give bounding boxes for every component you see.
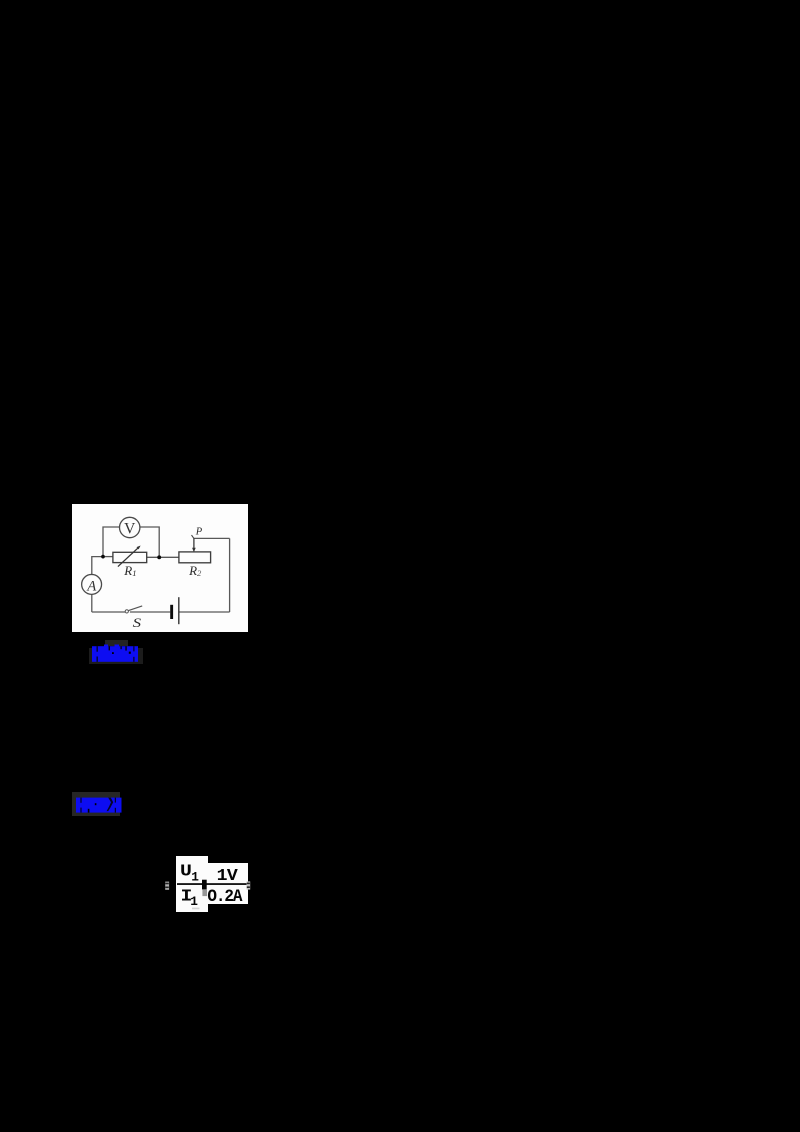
resistor R1 (variable) body [112, 552, 146, 562]
svg-text:A: A [86, 578, 97, 594]
blue label 2 (bracketed caption blob) [74, 795, 124, 815]
circuit figure white panel [72, 504, 249, 633]
wire: battery to bottom right corner [179, 611, 229, 613]
equals fragment at right edge [247, 881, 251, 889]
wire: R1 right through right junction to R2 left [146, 556, 178, 558]
wire: right vertical riser [228, 538, 230, 612]
wire: voltmeter right lead down to right junction [139, 527, 158, 557]
fraction bar [177, 883, 247, 885]
formula right white patch [208, 863, 248, 904]
artifact shadow behind label 2 [72, 792, 121, 816]
equals fragment at left edge [165, 882, 169, 890]
svg-text:O.2A: O.2A [207, 887, 243, 907]
battery positive plate (long thin) [177, 597, 179, 624]
wire: bottom left run to switch [91, 611, 124, 613]
wire: ammeter bottom to bottom-left corner [90, 594, 92, 612]
battery negative plate (thick short) [170, 604, 173, 618]
switch S circle [125, 609, 128, 612]
svg-text:R1: R1 [123, 562, 136, 577]
svg-text:1: 1 [191, 870, 199, 885]
ammeter U-A [81, 574, 101, 594]
node: left junction dot [101, 554, 105, 558]
formula left white patch [176, 856, 208, 912]
switch S blade [128, 605, 142, 610]
svg-text:R2: R2 [188, 562, 202, 577]
equals sign blob between fractions [202, 880, 207, 890]
artifact shadow above label 1 [105, 640, 128, 646]
artifact shadow behind label 1 [89, 648, 144, 664]
svg-text:S: S [132, 616, 141, 630]
svg-text:V: V [124, 520, 136, 537]
voltmeter U-V [119, 517, 139, 537]
svg-text:1: 1 [190, 894, 198, 909]
resistor R1 arrow [117, 547, 138, 566]
wire: left junction to R1 left [103, 555, 113, 557]
svg-text:U: U [180, 863, 192, 881]
svg-text:1V: 1V [217, 867, 239, 885]
wiper P arm of R2 [192, 538, 194, 548]
wire: left junction to ammeter top [91, 556, 102, 574]
circuit schematic svg [72, 504, 249, 633]
resistor R2 (potentiometer) body [178, 551, 210, 562]
node: right junction dot [157, 555, 161, 559]
blue label 1 (bracketed caption blob) [90, 643, 142, 665]
svg-text:P: P [194, 526, 202, 537]
wire: wiper top horizontal to right riser [193, 537, 229, 539]
wire: voltmeter left lead to left junction [103, 527, 120, 557]
wire: switch to battery [129, 611, 169, 613]
artifact gray underline below I subscript [192, 908, 200, 910]
